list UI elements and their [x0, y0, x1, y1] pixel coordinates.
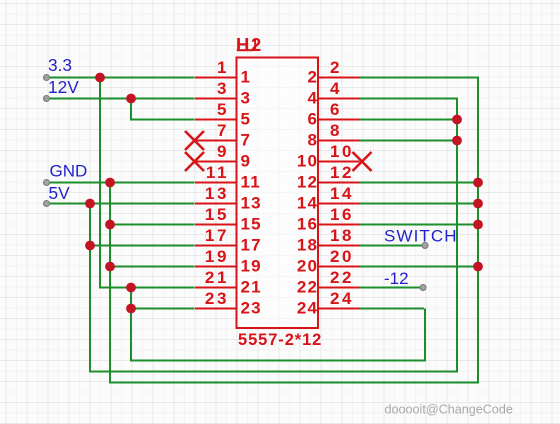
svg-text:2: 2 [330, 58, 342, 77]
svg-text:3.3: 3.3 [48, 55, 72, 75]
no-connect X pin 9 [185, 152, 204, 171]
wire net SWITCH to pin 18 [357, 245, 425, 247]
wire net 3.3 horizontal to pin 1 [47, 77, 195, 79]
pin 24 name [297, 298, 318, 317]
svg-text:7: 7 [241, 130, 252, 149]
svg-text:H2: H2 [236, 34, 263, 55]
pin 10 number [330, 142, 354, 161]
pin 11 number [206, 163, 229, 182]
svg-text:3: 3 [241, 88, 252, 107]
wire net 3.3 bottom horizontal y=360.5 [130, 360, 425, 362]
wire net 3.3 vertical bus x=100 [99, 77, 101, 288]
wire net 12V vertical x=131 [130, 99, 132, 120]
pin 18 number [330, 226, 354, 245]
svg-text:24: 24 [330, 289, 354, 308]
svg-text:5: 5 [217, 100, 229, 119]
pin 9 stub [195, 161, 237, 163]
pin 5 name [241, 109, 252, 128]
pin 18 stub [318, 245, 360, 247]
value 5557-2*12 [238, 331, 322, 349]
pin 17 number [205, 226, 229, 245]
svg-text:14: 14 [330, 184, 354, 203]
pin 7 name [241, 130, 252, 149]
pin 10 stub [318, 161, 360, 163]
wire net GND horizontal to pin 20 [357, 266, 478, 268]
pin 7 number [217, 121, 229, 140]
svg-text:-12: -12 [384, 269, 409, 288]
connector H2 body [237, 58, 319, 329]
pin 23 stub [195, 308, 237, 310]
wire net 5V horizontal to pin 6 [357, 119, 457, 121]
pin 9 number [217, 142, 229, 161]
pin 18 name [297, 235, 318, 254]
wire net 12V horizontal to pin 3 [47, 98, 195, 100]
pin 24 number [330, 289, 354, 308]
port dot net 3.3 [44, 75, 50, 81]
pin 7 stub [195, 140, 237, 142]
net label SWITCH [384, 227, 458, 246]
port dot net -12 [420, 285, 426, 291]
svg-text:1: 1 [241, 67, 252, 86]
wire net 12V horizontal to pin 5 [130, 119, 195, 121]
junction at 457,140.5 [452, 136, 462, 146]
wire net GND horizontal to pin 11 [47, 182, 195, 184]
svg-text:6: 6 [308, 109, 319, 128]
pin 4 number [330, 79, 342, 98]
wire net 3.3 horizontal to pin 21 [99, 287, 195, 289]
pin 13 stub [195, 203, 237, 205]
pin 14 stub [318, 203, 360, 205]
junction at 457,119.5 [452, 115, 462, 125]
svg-text:15: 15 [205, 205, 229, 224]
pin 19 number [205, 247, 229, 266]
wire net 5V vertical bus x=90 [89, 204, 91, 372]
svg-text:19: 19 [241, 256, 262, 275]
svg-text:7: 7 [217, 121, 229, 140]
pin 5 stub [195, 119, 237, 121]
svg-text:2: 2 [308, 67, 319, 86]
pin 12 name [297, 172, 318, 191]
svg-text:19: 19 [205, 247, 229, 266]
pin 6 name [308, 109, 319, 128]
pin 3 number [217, 79, 229, 98]
pin 22 number [330, 268, 354, 287]
pin 13 number [205, 184, 229, 203]
svg-text:14: 14 [297, 193, 318, 212]
pin 23 name [241, 298, 262, 317]
svg-text:21: 21 [205, 268, 229, 287]
wire net GND horizontal to pin 19 [109, 266, 195, 268]
svg-text:20: 20 [297, 256, 318, 275]
svg-text:17: 17 [241, 235, 262, 254]
svg-text:23: 23 [205, 289, 229, 308]
svg-text:11: 11 [206, 163, 229, 182]
pin 15 name [241, 214, 262, 233]
svg-text:1: 1 [217, 58, 229, 77]
svg-text:18: 18 [297, 235, 318, 254]
svg-text:16: 16 [330, 205, 354, 224]
junction at 90,245.5 [85, 241, 95, 251]
svg-text:GND: GND [50, 162, 88, 181]
junction at 478,203.5 [473, 199, 483, 209]
port dot net GND [44, 180, 50, 186]
pin 16 name [297, 214, 318, 233]
svg-text:21: 21 [241, 277, 262, 296]
junction at 131,98.5 [126, 94, 136, 104]
net label 12V [48, 77, 79, 97]
junction at 478,266.5 [473, 262, 483, 272]
junction at 478,224.5 [473, 220, 483, 230]
wire net 3.3 vertical x=131 down to bottom [130, 288, 132, 361]
pin 15 stub [195, 224, 237, 226]
pin 17 name [241, 235, 262, 254]
pin 21 name [241, 277, 262, 296]
pin 21 stub [195, 287, 237, 289]
pin 12 stub [318, 182, 360, 184]
wire net GND horizontal to pin 14 [357, 203, 478, 205]
pin 6 stub [318, 119, 360, 121]
designator H2 [236, 34, 263, 55]
pin 15 number [205, 205, 229, 224]
pin 4 name [308, 88, 319, 107]
svg-text:8: 8 [308, 130, 319, 149]
pin 8 name [308, 130, 319, 149]
junction at 90,203.5 [85, 199, 95, 209]
net label 3.3 [48, 55, 72, 75]
svg-text:5V: 5V [49, 183, 71, 203]
svg-text:16: 16 [297, 214, 318, 233]
pin 11 stub [195, 182, 237, 184]
pin 16 number [330, 205, 354, 224]
wire net 3.3 horizontal to pin 24 [357, 308, 424, 310]
svg-text:12: 12 [330, 163, 354, 182]
pin 2 stub [318, 77, 360, 79]
wire net 5V horizontal to pin 13 [47, 203, 195, 205]
svg-text:12: 12 [297, 172, 318, 191]
watermark dooooit@ChangeCode [385, 403, 513, 417]
pin 14 number [330, 184, 354, 203]
svg-text:12V: 12V [48, 77, 79, 97]
svg-text:11: 11 [241, 172, 261, 191]
no-connect X pin 7 [185, 131, 204, 150]
svg-text:23: 23 [241, 298, 262, 317]
junction at 110,224.5 [105, 220, 115, 230]
svg-text:13: 13 [205, 184, 229, 203]
junction at 110,266.5 [105, 262, 115, 272]
svg-text:5: 5 [241, 109, 252, 128]
svg-text:22: 22 [297, 277, 318, 296]
svg-text:10: 10 [330, 142, 354, 161]
net label GND [50, 162, 88, 181]
svg-text:20: 20 [330, 247, 354, 266]
pin 6 number [330, 100, 342, 119]
junction at 100,77.5 [95, 73, 105, 83]
port dot net SWITCH [422, 243, 428, 249]
pin 12 number [330, 163, 354, 182]
junction at 131,308.5 [126, 304, 136, 314]
wire net 3.3 vertical x=425 up to pin 24 row [424, 309, 426, 362]
wire net GND bottom horizontal y=382.5 [109, 382, 478, 384]
pin 8 number [330, 121, 342, 140]
pin 17 stub [195, 245, 237, 247]
pin 13 name [241, 193, 262, 212]
no-connect X pin 10 [353, 152, 372, 171]
pin 1 number [217, 58, 229, 77]
pin 24 stub [318, 308, 360, 310]
svg-text:15: 15 [241, 214, 262, 233]
pin 19 name [241, 256, 262, 275]
wire net 5V horizontal to pin 8 [357, 140, 457, 142]
svg-text:6: 6 [330, 100, 342, 119]
wire net GND horizontal to pin 16 [357, 224, 478, 226]
net label -12 [384, 269, 409, 288]
pin 3 stub [195, 98, 237, 100]
pin 9 name [241, 151, 252, 170]
pin 22 name [297, 277, 318, 296]
wire net GND horizontal to pin 12 [357, 182, 478, 184]
pin 20 name [297, 256, 318, 275]
pin 16 stub [318, 224, 360, 226]
junction at 110,182.5 [105, 178, 115, 188]
pin 1 name [241, 67, 252, 86]
svg-text:8: 8 [330, 121, 342, 140]
wire net 5V vertical x=457 [456, 99, 458, 373]
pin 11 name [241, 172, 261, 191]
wire net GND vertical x=478 [477, 78, 479, 384]
pin 21 number [205, 268, 229, 287]
svg-text:13: 13 [241, 193, 262, 212]
junction at 131,287.5 [126, 283, 136, 293]
pin 10 name [297, 151, 318, 170]
svg-text:9: 9 [217, 142, 229, 161]
svg-text:5557-2*12: 5557-2*12 [238, 331, 322, 349]
svg-text:4: 4 [308, 88, 319, 107]
pin 2 number [330, 58, 342, 77]
wire net 5V horizontal to pin 17 [89, 245, 195, 247]
svg-text:17: 17 [205, 226, 229, 245]
pin 20 number [330, 247, 354, 266]
port dot net 5V [44, 201, 50, 207]
svg-text:10: 10 [297, 151, 318, 170]
pin 8 stub [318, 140, 360, 142]
svg-text:4: 4 [330, 79, 342, 98]
pin 2 name [308, 67, 319, 86]
svg-text:9: 9 [241, 151, 252, 170]
wire net 5V bottom horizontal y=371.5 [89, 371, 457, 373]
pin 5 number [217, 100, 229, 119]
pin 23 number [205, 289, 229, 308]
pin 19 stub [195, 266, 237, 268]
pin 3 name [241, 88, 252, 107]
svg-text:3: 3 [217, 79, 229, 98]
wire net 3.3 horizontal to pin 23 [131, 308, 195, 310]
port dot net 12V [44, 96, 50, 102]
wire net 5V horizontal to pin 4 [357, 98, 458, 100]
net label 5V [49, 183, 71, 203]
wire net GND horizontal to pin 2 [357, 77, 479, 79]
wire net GND horizontal to pin 15 [109, 224, 195, 226]
pin 1 stub [195, 77, 237, 79]
svg-text:18: 18 [330, 226, 354, 245]
svg-text:24: 24 [297, 298, 318, 317]
pin 22 stub [318, 287, 360, 289]
pin 20 stub [318, 266, 360, 268]
svg-text:dooooit@ChangeCode: dooooit@ChangeCode [385, 403, 513, 417]
junction at 478,182.5 [473, 178, 483, 188]
wire net GND vertical bus x=110 [109, 183, 111, 383]
pin 14 name [297, 193, 318, 212]
wire net -12 to pin 22 [357, 287, 423, 289]
pin 4 stub [318, 98, 360, 100]
svg-text:22: 22 [330, 268, 354, 287]
svg-text:SWITCH: SWITCH [384, 227, 458, 246]
